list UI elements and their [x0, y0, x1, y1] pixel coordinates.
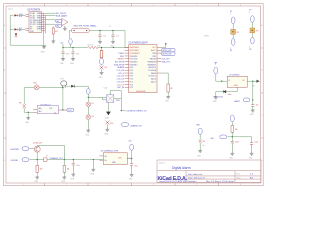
connector pin oval	[231, 39, 235, 46]
IC U6 body	[103, 153, 127, 165]
svg-text:Rev:: Rev:	[237, 173, 242, 175]
capacitor C2 22p	[98, 31, 106, 41]
wire power rail	[63, 47, 129, 49]
U7 pin text	[228, 80, 245, 87]
svg-text:RXD: RXD	[120, 56, 125, 58]
junction	[62, 87, 63, 88]
svg-text:LCD_D6: LCD_D6	[117, 81, 124, 83]
svg-text:1k: 1k	[54, 112, 56, 114]
+5V arrow	[252, 80, 260, 88]
svg-text:SCK_ISP: SCK_ISP	[162, 59, 171, 61]
svg-text:SPEAKER_OUT: SPEAKER_OUT	[50, 157, 64, 160]
resistor R9	[106, 121, 114, 125]
svg-text:SOUND: SOUND	[11, 160, 19, 162]
svg-text:IN2: IN2	[56, 26, 59, 28]
svg-text:Y1: Y1	[109, 26, 111, 28]
svg-text:PD1/TXD: PD1/TXD	[130, 59, 138, 61]
svg-text:PD4: PD4	[130, 67, 134, 69]
diode D6 down	[105, 112, 111, 120]
U6 pins	[99, 156, 131, 160]
svg-text:Q1 BC547: Q1 BC547	[33, 143, 42, 145]
wire	[87, 107, 89, 115]
svg-text:PC2: PC2	[130, 84, 134, 86]
svg-text:ADC7: ADC7	[151, 80, 156, 83]
wire speaker to lamp row	[62, 88, 64, 110]
svg-text:R5: R5	[105, 67, 107, 69]
ground C7	[130, 174, 134, 177]
svg-text:Digital Alarm: Digital Alarm	[172, 166, 191, 170]
wire loop to label	[121, 110, 125, 112]
svg-text:Size:: Size:	[237, 177, 242, 179]
U7 ground pin wire	[227, 87, 238, 91]
junction	[232, 136, 233, 137]
svg-text:SPKR: SPKR	[204, 35, 210, 37]
svg-text:R6 10k: R6 10k	[88, 44, 94, 46]
svg-text:1M: 1M	[67, 169, 70, 171]
ground	[100, 72, 104, 75]
capacitor C11	[72, 160, 80, 174]
svg-text:PB2/SS: PB2/SS	[150, 59, 157, 61]
svg-text:PD5: PD5	[130, 70, 134, 72]
svg-text:1: 1	[230, 13, 231, 15]
polarized cap C1 symbol	[69, 39, 72, 45]
ground mic	[198, 150, 202, 153]
ground C6	[71, 58, 75, 61]
svg-text:PB4/MISO: PB4/MISO	[148, 64, 157, 66]
ground C3	[111, 41, 115, 44]
wire to U5 inputs	[88, 97, 106, 100]
IC U7 body	[227, 76, 247, 87]
svg-text:6: 6	[240, 184, 241, 186]
ground under R4	[51, 40, 55, 43]
wire regulator out	[247, 80, 256, 82]
U3 pin names	[30, 12, 41, 33]
resistor R4	[52, 28, 57, 34]
wire junction row	[227, 132, 251, 142]
capacitor C7	[130, 159, 138, 174]
ground branch	[27, 112, 29, 117]
label bubble BUZZER	[11, 147, 29, 151]
hierarchical label bubble 2	[56, 24, 63, 27]
svg-text:5: 5	[197, 5, 198, 7]
svg-text:10u: 10u	[256, 105, 259, 107]
svg-text:INT_KEYB: INT_KEYB	[115, 61, 125, 63]
wire to gate input	[24, 108, 33, 112]
hierarchical label bubble out	[67, 108, 74, 112]
svg-text:PC4/SDA: PC4/SDA	[148, 69, 156, 72]
wire resistor to rail	[52, 26, 54, 39]
svg-text:LCD_D4: LCD_D4	[117, 76, 124, 78]
U4 pins	[33, 109, 67, 112]
svg-text:B: B	[261, 70, 262, 72]
wire to U3 left pins	[20, 15, 26, 29]
junction	[252, 99, 253, 100]
svg-text:10k: 10k	[235, 129, 238, 131]
U2 left pins	[125, 47, 129, 87]
junction	[62, 47, 63, 48]
transistor Q1	[34, 146, 40, 152]
junction	[93, 159, 94, 160]
svg-text:kicad (2014-12-17 BZR 5321)-pr: kicad (2014-12-17 BZR 5321)-product	[160, 180, 197, 183]
U3 left pins	[26, 14, 30, 30]
wire AREF to resistor	[161, 73, 168, 84]
svg-text:22p: 22p	[103, 35, 106, 37]
svg-text:5: 5	[197, 184, 198, 186]
global label MOSI	[162, 52, 176, 56]
polarized cap body	[100, 58, 104, 64]
svg-text:PB5/SCK: PB5/SCK	[148, 67, 156, 69]
svg-text:LCD_E: LCD_E	[118, 73, 125, 75]
ground	[86, 129, 90, 132]
junction	[99, 30, 100, 31]
junction	[37, 159, 38, 160]
junction	[72, 47, 73, 48]
U5 output wire	[114, 98, 122, 100]
electrolytic cap C9	[100, 48, 103, 58]
ground C12	[251, 109, 255, 112]
junction	[252, 81, 253, 82]
polarized cap body	[130, 144, 134, 150]
frame zone ticks	[4, 4, 264, 186]
junction	[73, 159, 74, 160]
svg-text:RESET: RESET	[118, 59, 125, 61]
ground of U3 rail	[42, 45, 46, 48]
wire crystal row	[70, 31, 126, 48]
+5V arrow at VCC	[161, 43, 167, 48]
svg-text:BUZZER: BUZZER	[11, 149, 20, 151]
global label MISO	[162, 49, 176, 53]
svg-text:OUT: OUT	[49, 108, 52, 110]
svg-text:PB7/XTAL2: PB7/XTAL2	[130, 49, 139, 52]
connector pin oval	[231, 17, 235, 24]
U5 bottom pin	[107, 102, 109, 111]
svg-text:100n: 100n	[235, 142, 239, 144]
wire up to supply	[131, 150, 133, 158]
speaker SP2	[44, 155, 64, 161]
svg-text:U6 LM386N-1 DIP8: U6 LM386N-1 DIP8	[101, 151, 119, 153]
svg-text:PC6/RESET: PC6/RESET	[130, 53, 141, 55]
lamp DS1	[33, 83, 39, 90]
svg-text:100n: 100n	[66, 53, 70, 55]
junction	[221, 81, 222, 82]
wire chain down	[87, 94, 89, 101]
svg-text:1: 1	[23, 5, 24, 7]
svg-text:PB3/MOSI: PB3/MOSI	[148, 61, 157, 63]
svg-text:GND AGND: GND AGND	[136, 90, 146, 93]
polarized cap	[230, 115, 234, 122]
svg-text:1: 1	[23, 184, 24, 186]
label bubble +BATT	[234, 98, 250, 103]
wire collector loop	[37, 145, 64, 159]
svg-text:MIC_IN: MIC_IN	[118, 87, 125, 89]
svg-text:PD2/INT0: PD2/INT0	[130, 61, 138, 63]
ground	[250, 152, 254, 155]
svg-text:AVCC: AVCC	[151, 49, 157, 52]
polarized cap C10	[87, 89, 91, 95]
svg-text:GPA7: GPA7	[37, 28, 42, 31]
resistor R2	[167, 84, 173, 92]
wire to ground	[101, 69, 103, 71]
page frame outer border	[4, 4, 264, 186]
wire	[199, 135, 201, 140]
svg-text:PB0: PB0	[153, 53, 156, 55]
svg-text:D3: D3	[92, 116, 94, 118]
svg-text:3: 3	[110, 184, 111, 186]
U2 right pins	[157, 47, 161, 73]
label bubble SOUND	[11, 158, 29, 162]
capacitor C12	[251, 105, 258, 110]
connector pin oval	[251, 37, 255, 44]
svg-text:mic: mic	[202, 145, 205, 147]
svg-text:R8: R8	[19, 102, 21, 104]
svg-text:IN1: IN1	[56, 21, 59, 23]
U2 pin names right column	[148, 47, 157, 83]
resistor R11	[199, 140, 206, 144]
svg-text:1: 1	[249, 12, 250, 14]
U6 pin text	[105, 156, 122, 164]
connector pin oval	[251, 16, 255, 23]
svg-text:PD6: PD6	[130, 73, 134, 75]
wire lamp row	[24, 87, 63, 89]
wire to ground	[107, 124, 109, 128]
svg-text:2: 2	[66, 184, 67, 186]
svg-text:+BATT: +BATT	[234, 100, 241, 103]
jumper JP2	[250, 28, 259, 33]
svg-text:4: 4	[153, 184, 154, 186]
svg-text:ADC6: ADC6	[151, 78, 156, 81]
svg-text:LCD_RS: LCD_RS	[117, 70, 125, 72]
U2 left net labels	[114, 52, 125, 89]
wire	[232, 24, 234, 38]
wire	[251, 23, 253, 37]
svg-text:4: 4	[153, 5, 154, 7]
wire vertical pair right of U3	[43, 13, 45, 45]
junction	[28, 112, 29, 113]
svg-text:R4: R4	[55, 31, 57, 33]
svg-text:470: 470	[110, 123, 113, 125]
svg-text:PD7: PD7	[130, 76, 134, 78]
diode D4	[216, 90, 226, 96]
svg-text:DS1: DS1	[33, 83, 37, 85]
svg-text:JP2: JP2	[255, 31, 258, 33]
mic body	[198, 128, 202, 134]
resistor R10	[63, 160, 70, 173]
svg-text:PB6/XTAL1: PB6/XTAL1	[130, 46, 139, 49]
ground	[26, 117, 30, 120]
IC U3 body	[29, 12, 42, 33]
svg-text:A0: A0	[19, 29, 21, 32]
diode D5	[67, 85, 89, 88]
resistor R6 10k	[87, 46, 98, 48]
svg-text:MK1: MK1	[197, 124, 201, 126]
svg-text:3: 3	[110, 5, 111, 7]
svg-text:B: B	[4, 70, 5, 72]
svg-text:SCL: SCL	[19, 16, 23, 18]
capacitor C14	[250, 141, 258, 152]
svg-text:LCD_D5: LCD_D5	[117, 79, 124, 81]
wire to ground	[63, 172, 65, 176]
wire +BATT label	[252, 81, 254, 104]
wire U3 bottom to gnd rail	[10, 44, 46, 46]
capacitor C13	[231, 137, 239, 153]
svg-text:File: alarm.sch: File: alarm.sch	[188, 173, 203, 176]
svg-text:MOSI_ISP: MOSI_ISP	[163, 54, 173, 56]
lamp D3	[86, 115, 94, 120]
svg-text:Sheet: /: Sheet: /	[159, 161, 166, 164]
wire to ground	[92, 160, 94, 169]
capacitor C5 100n	[61, 48, 69, 58]
svg-text:ALARM: ALARM	[117, 66, 124, 69]
jumper JP1	[231, 29, 240, 34]
svg-text:R2: R2	[170, 88, 172, 90]
wire to ground	[199, 143, 201, 150]
ground	[62, 176, 66, 179]
svg-text:100n: 100n	[76, 165, 80, 167]
wire U3 outputs to labels	[46, 13, 56, 24]
svg-text:6: 6	[240, 5, 241, 7]
svg-text:Date: 2014-12-17: Date: 2014-12-17	[188, 177, 206, 180]
ground C2	[98, 41, 102, 44]
svg-text:PC0: PC0	[130, 79, 134, 81]
svg-text:COUNTER_RESET_1S: COUNTER_RESET_1S	[125, 111, 147, 113]
svg-text:U2 ATMEGA328-P: U2 ATMEGA328-P	[129, 42, 149, 45]
svg-text:100n: 100n	[228, 94, 232, 96]
svg-text:10u: 10u	[135, 165, 138, 167]
ground C5	[61, 58, 65, 61]
ground	[230, 152, 234, 155]
diode D1	[14, 14, 19, 16]
svg-text:P8: P8	[249, 49, 251, 51]
speaker SP1	[61, 81, 67, 88]
+BATT symbol	[214, 62, 218, 74]
svg-text:SW1 SW_PUSH_SMALL: SW1 SW_PUSH_SMALL	[74, 24, 98, 27]
hierarchical label bubble 1	[56, 19, 63, 22]
svg-text:alarm: alarm	[8, 9, 13, 11]
op-amp U1A	[62, 15, 69, 26]
diode D2	[14, 28, 19, 30]
svg-text:PC1: PC1	[130, 81, 134, 83]
svg-text:22p: 22p	[116, 35, 119, 37]
wire switch left leg	[70, 31, 71, 48]
junction	[88, 97, 89, 98]
ground under op-amp	[63, 26, 67, 30]
wire left branch down	[23, 88, 25, 105]
svg-text:SDA_KEYB: SDA_KEYB	[114, 63, 125, 66]
svg-text:PD3/INT1: PD3/INT1	[130, 64, 138, 66]
diode D3	[15, 33, 18, 36]
capacitor C3 22p	[111, 31, 119, 41]
junction	[64, 159, 65, 160]
svg-text:100n: 100n	[76, 53, 80, 55]
IC U5 body	[107, 95, 114, 103]
+5V power symbol	[60, 42, 64, 47]
svg-text:OUT: OUT	[118, 158, 122, 160]
label bubble MIC	[211, 135, 227, 140]
svg-text:10k: 10k	[40, 169, 43, 171]
svg-text:ALARM_ON: ALARM_ON	[131, 124, 143, 127]
wire to ground	[87, 120, 89, 130]
svg-text:C?: C?	[46, 155, 48, 157]
svg-text:IN+: IN+	[105, 156, 108, 158]
IC U2 body	[129, 45, 157, 93]
svg-text:Rev: 2.0 Sheet: 1/1 Id: al: Rev: 2.0 Sheet: 1/1 Id: alarm	[206, 180, 234, 183]
svg-text:IN B: IN B	[38, 111, 41, 113]
resistor R12	[231, 122, 238, 133]
svg-text:D2: D2	[92, 103, 94, 105]
ground under R2	[166, 96, 170, 99]
junction	[121, 110, 122, 111]
IC U4 body	[37, 106, 58, 114]
page frame inner border	[6, 6, 261, 183]
svg-text:PB1: PB1	[153, 56, 156, 58]
svg-text:SDA_RTC: SDA_RTC	[162, 60, 171, 63]
wire out	[127, 157, 131, 159]
svg-text:PD0/RXD: PD0/RXD	[130, 56, 138, 58]
svg-text:TRIG: TRIG	[116, 100, 121, 102]
svg-text:GND: GND	[41, 51, 46, 53]
svg-text:U3 PCF8574: U3 PCF8574	[27, 9, 41, 11]
lamp D2	[86, 102, 94, 107]
svg-text:2: 2	[66, 5, 67, 7]
svg-text:XTAL2: XTAL2	[118, 52, 124, 55]
junction	[131, 158, 132, 159]
U5 feedback loop wire	[110, 91, 121, 111]
U3 right pins	[42, 13, 46, 31]
wire bottom rail	[29, 159, 103, 161]
svg-text:PC3: PC3	[130, 87, 134, 89]
ground regulator	[214, 96, 218, 99]
svg-text:JP1: JP1	[236, 32, 239, 34]
resistor RX	[100, 65, 107, 70]
ground	[35, 176, 39, 179]
wire to ground	[36, 172, 38, 176]
capacitor C6 100n	[71, 48, 79, 58]
wire left vertical bus	[10, 15, 13, 45]
wire from diode into chain	[87, 86, 89, 88]
ground C11	[71, 173, 75, 176]
svg-text:P6: P6	[230, 50, 232, 52]
svg-text:SP1: SP1	[61, 79, 64, 81]
ground	[105, 128, 109, 131]
wire base	[29, 148, 33, 150]
hierarchical label bubble ALARM	[122, 123, 143, 128]
wire into regulator	[216, 74, 227, 81]
svg-text:100n: 100n	[254, 141, 258, 143]
U2 pin names left column	[130, 46, 141, 89]
wire emitter	[36, 153, 38, 160]
switch SW1 body	[71, 28, 89, 33]
resistor R7	[36, 160, 43, 173]
junction	[101, 47, 102, 48]
U4 pin text	[38, 107, 52, 113]
wire to ground	[167, 92, 169, 96]
svg-text:PC5/SCL: PC5/SCL	[149, 76, 157, 78]
junction	[112, 30, 113, 31]
svg-text:LCD_D7: LCD_D7	[117, 84, 124, 86]
resistor R8	[19, 102, 26, 108]
ground	[91, 168, 95, 171]
